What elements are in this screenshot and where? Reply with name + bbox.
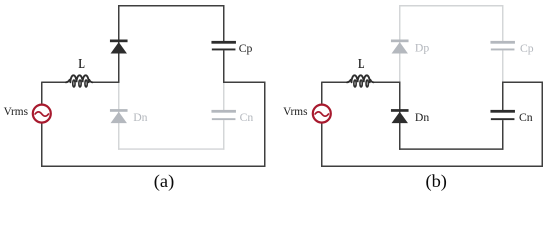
- svg-text:Cp: Cp: [520, 42, 534, 55]
- svg-text:Dn: Dn: [415, 111, 429, 124]
- wire: gray diode branch lower (a): [118, 83, 120, 150]
- caption (a): [154, 171, 174, 192]
- label Dp (b) gray: [415, 42, 429, 55]
- label L (a): [79, 55, 85, 71]
- wire: dark inner bottom wire (b): [399, 148, 503, 150]
- svg-text:(b): (b): [425, 171, 446, 192]
- voltage source Vrms (a): [33, 105, 51, 123]
- wire: gray cap branch between Cp and midpoint (b): [502, 50, 504, 82]
- diode Dp (b) (gray, off): [391, 40, 409, 54]
- wire: gray cap branch lower segments (a): [223, 83, 225, 150]
- wire: middle wire source-to-inductor (a): [41, 81, 66, 83]
- wire: inductor-to-diode-branch (a): [92, 81, 120, 83]
- capacitor Cp (b) (gray, off): [490, 41, 515, 51]
- svg-text:Cn: Cn: [519, 111, 533, 124]
- wire: cap branch between Cp and midpoint (a): [223, 50, 225, 83]
- svg-text:Cn: Cn: [240, 111, 254, 124]
- svg-text:Vrms: Vrms: [283, 106, 307, 118]
- wire: gray inner bottom wire (a): [118, 148, 224, 150]
- wire: inductor-to-diode-branch (b): [373, 81, 401, 83]
- svg-text:Dp: Dp: [415, 42, 429, 55]
- label L (b): [358, 55, 364, 71]
- capacitor Cn (a) (gray, off): [211, 110, 236, 120]
- diode Dn (b) (conducting): [391, 109, 409, 123]
- capacitor Cp (a): [211, 41, 236, 51]
- label Vrms (a): [4, 106, 28, 118]
- svg-text:Cp: Cp: [239, 42, 253, 55]
- caption (b): [425, 171, 446, 192]
- capacitor Cn (b): [490, 110, 515, 120]
- wire: middle wire source-to-inductor (b): [321, 81, 347, 83]
- label Cp (a): [239, 42, 253, 55]
- label Dn (a) gray: [133, 111, 147, 124]
- diode Dp (a) (unlabeled, conducting): [110, 40, 128, 54]
- label Cn (b): [519, 111, 533, 124]
- wire: outer loop (b) left/bottom/right + cap-midpoint link: [322, 82, 543, 166]
- svg-text:(a): (a): [154, 171, 174, 192]
- svg-text:Dn: Dn: [133, 111, 147, 124]
- voltage source Vrms (b): [313, 105, 331, 123]
- inductor L (a): [66, 75, 93, 87]
- svg-text:Vrms: Vrms: [4, 106, 28, 118]
- inductor L (b): [347, 75, 374, 87]
- svg-text:L: L: [358, 55, 364, 71]
- label Cn (a) gray: [240, 111, 254, 124]
- label Dn (b): [415, 111, 429, 124]
- wire: dark diode branch lower (b): [399, 82, 401, 150]
- wire: outer loop (a) left/bottom/right + cap-midpoint link: [42, 82, 265, 166]
- wire: dark cap branch lower segments (b): [502, 82, 504, 150]
- label Cp (b) gray: [520, 42, 534, 55]
- svg-text:L: L: [79, 55, 85, 71]
- diode Dn (a) (gray, off): [110, 109, 128, 123]
- wire: gray diode branch upper + gray top wire + gray cap branch upper (b): [400, 6, 503, 82]
- label Vrms (b): [283, 106, 307, 118]
- wire: diode branch upper + top wire + cap branch upper (a): [119, 6, 224, 83]
